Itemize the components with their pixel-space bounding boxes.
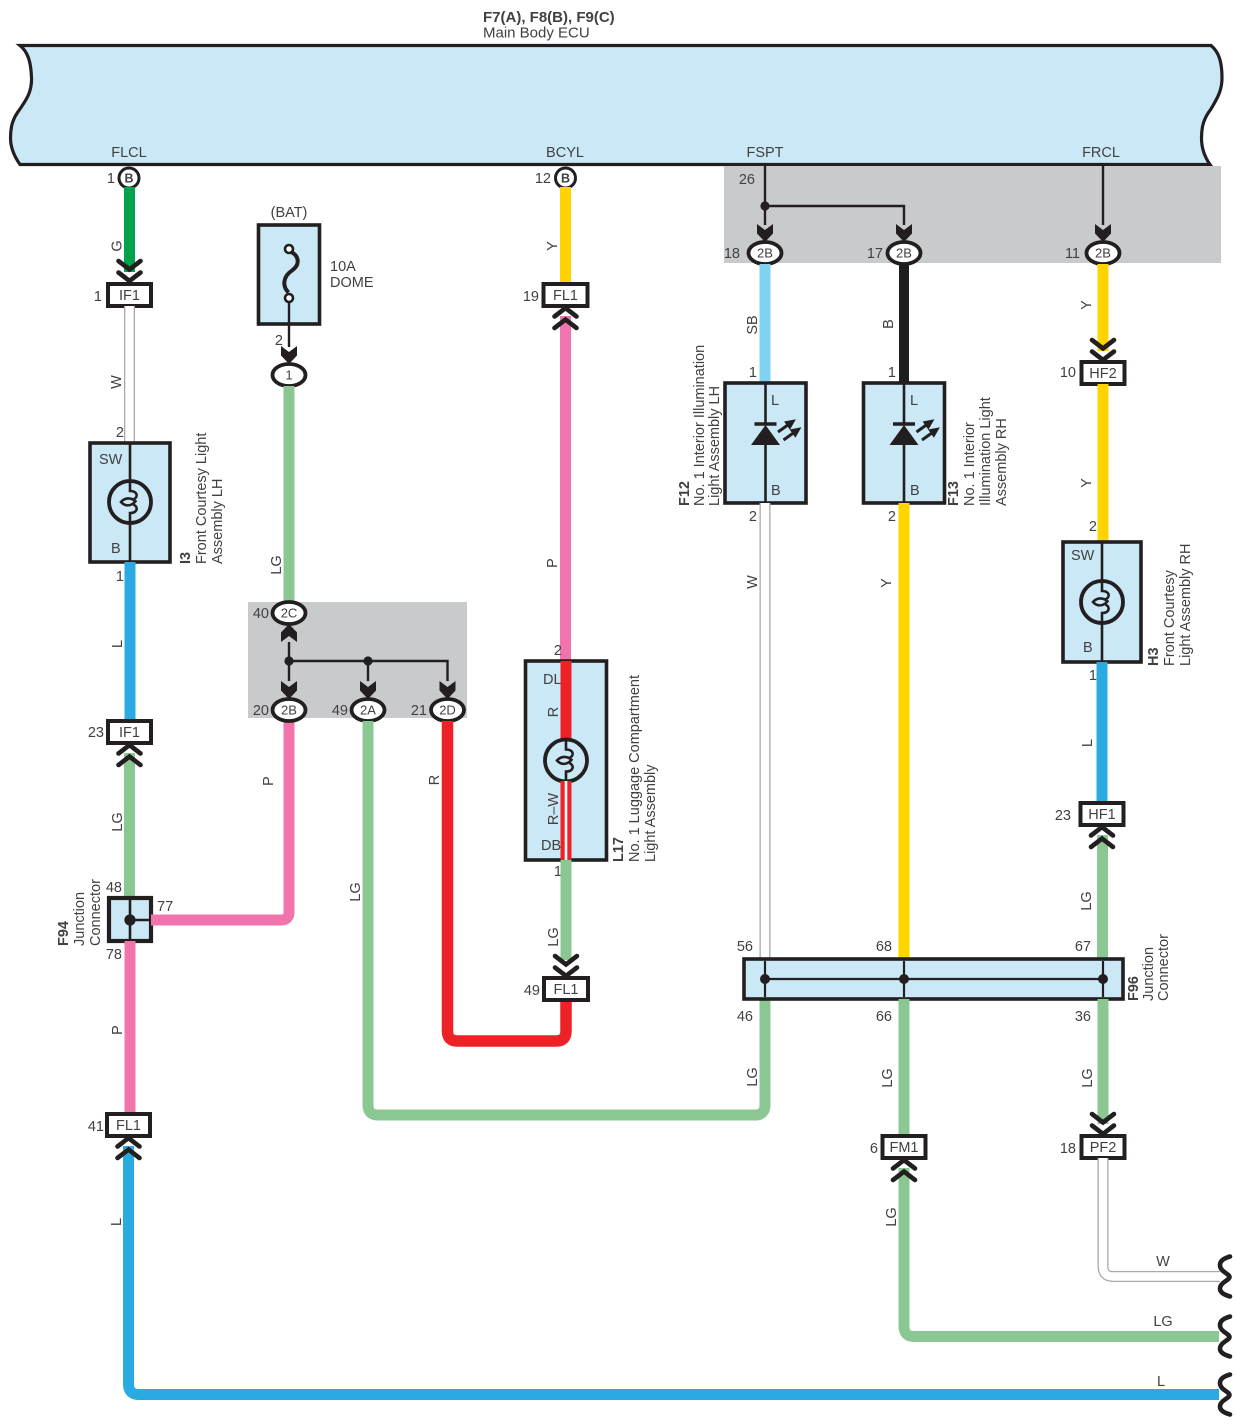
chevrons out of HF1 <box>1091 827 1113 847</box>
svg-text:LG: LG <box>1153 1314 1172 1330</box>
pin labels F96 top <box>737 939 1091 955</box>
junction dot 2A branch <box>363 656 372 665</box>
svg-text:1: 1 <box>1089 668 1097 684</box>
svg-text:W: W <box>745 575 761 589</box>
svg-text:40: 40 <box>253 606 269 622</box>
svg-text:FM1: FM1 <box>890 1140 919 1156</box>
svg-text:IF1: IF1 <box>119 725 140 741</box>
chevrons out of FL1 pin 41 <box>118 1138 140 1158</box>
svg-text:B: B <box>111 541 121 557</box>
svg-text:DOME: DOME <box>330 275 374 291</box>
wire LG (fuse to 2C) <box>284 386 295 603</box>
svg-text:Assembly RH: Assembly RH <box>994 418 1010 506</box>
svg-text:SW: SW <box>1071 548 1095 564</box>
svg-text:No. 1 Luggage Compartment: No. 1 Luggage Compartment <box>627 675 643 862</box>
connector oval 1 <box>273 364 306 386</box>
svg-text:49: 49 <box>332 703 348 719</box>
arrow out of 2C <box>281 624 297 642</box>
wire R-W inside L17 <box>561 781 572 860</box>
svg-text:Assembly LH: Assembly LH <box>210 479 226 564</box>
svg-text:L: L <box>110 640 126 648</box>
svg-text:B: B <box>910 483 920 499</box>
connector HF1 pin 23 <box>1055 803 1124 825</box>
chevrons out of FM1 <box>893 1160 915 1180</box>
svg-text:B: B <box>881 319 897 329</box>
connector oval 2C pin 40 <box>253 602 306 624</box>
svg-text:46: 46 <box>737 1009 753 1025</box>
svg-text:78: 78 <box>106 947 122 963</box>
svg-text:36: 36 <box>1075 1009 1091 1025</box>
wire SB (2B 18 to F12) <box>760 264 771 383</box>
svg-text:(BAT): (BAT) <box>271 205 308 221</box>
svg-text:Light Assembly: Light Assembly <box>643 764 659 862</box>
bulb I3 <box>109 481 151 523</box>
arrow into 2D <box>440 681 456 699</box>
svg-text:IF1: IF1 <box>119 288 140 304</box>
svg-text:F96: F96 <box>1126 976 1142 1001</box>
connector PF2 pin 18 <box>1060 1136 1125 1158</box>
connector oval 2B pin 11 <box>1065 242 1120 264</box>
chevrons out of IF1 pin 23 <box>119 745 141 765</box>
squiggle L <box>1220 1375 1230 1415</box>
svg-text:R: R <box>427 775 443 785</box>
pin 1 B (FLCL) <box>107 168 139 188</box>
svg-text:L: L <box>1157 1374 1165 1390</box>
svg-text:F13: F13 <box>946 481 962 506</box>
svg-text:2: 2 <box>1089 519 1097 535</box>
LED F12 <box>751 419 801 445</box>
svg-text:LG: LG <box>348 882 364 901</box>
chevrons into HF2 pin 10 <box>1092 340 1114 360</box>
junction dot FSPT branch <box>760 201 769 210</box>
svg-text:LG: LG <box>269 555 285 574</box>
svg-text:Y: Y <box>545 241 561 251</box>
svg-text:23: 23 <box>1055 808 1071 824</box>
Main Body ECU band <box>11 46 1223 165</box>
svg-text:68: 68 <box>876 939 892 955</box>
svg-text:Connector: Connector <box>88 879 104 946</box>
wire G (FLCL to IF1) <box>124 187 135 272</box>
interior illumination light F12 <box>725 383 806 503</box>
svg-text:2A: 2A <box>360 703 376 718</box>
svg-text:SB: SB <box>745 315 761 334</box>
luggage light L17 <box>526 661 607 860</box>
svg-text:26: 26 <box>739 172 755 188</box>
connector HF2 pin 10 <box>1060 362 1125 384</box>
svg-text:LG: LG <box>1080 1068 1096 1087</box>
svg-text:Connector: Connector <box>1156 934 1172 1001</box>
wire LG (L17 to FL1 49) <box>561 860 572 960</box>
connector FM1 pin 6 <box>870 1136 926 1158</box>
connector oval 2B pin 20 <box>253 699 306 721</box>
wire R inside L17 <box>561 661 572 740</box>
wire P (F94 pin 78 to FL1 41) <box>125 941 136 1114</box>
bulb H3 <box>1081 581 1123 623</box>
svg-text:21: 21 <box>411 703 427 719</box>
svg-text:B: B <box>124 172 133 186</box>
wire L (FL1 41 to right edge) <box>129 1146 1220 1395</box>
chevrons into IF1 pin 1 <box>119 261 141 281</box>
svg-text:Front Courtesy: Front Courtesy <box>1162 569 1178 666</box>
wire 2C branch <box>289 642 448 681</box>
svg-text:P: P <box>545 558 561 568</box>
svg-text:Front Courtesy Light: Front Courtesy Light <box>194 433 210 564</box>
svg-text:L: L <box>910 393 918 409</box>
svg-text:FL1: FL1 <box>116 1118 141 1134</box>
svg-text:B: B <box>1083 640 1093 656</box>
label L17 No. 1 Luggage Compartment Light Assembly <box>611 675 659 862</box>
svg-text:2B: 2B <box>896 246 912 261</box>
svg-text:77: 77 <box>157 899 173 915</box>
svg-text:L: L <box>109 1218 125 1226</box>
chevrons into PF2 <box>1092 1114 1114 1134</box>
svg-text:1: 1 <box>749 365 757 381</box>
svg-text:49: 49 <box>524 983 540 999</box>
chevrons out of FL1 pin 19 <box>555 308 577 328</box>
svg-text:DL: DL <box>543 672 562 688</box>
wire W (PF2 to right edge) <box>1103 1158 1220 1277</box>
svg-text:17: 17 <box>867 246 883 262</box>
svg-text:H3: H3 <box>1146 647 1162 666</box>
connector IF1 pin 1 <box>94 284 151 306</box>
svg-text:FL1: FL1 <box>553 288 578 304</box>
wire LG (F96 pin 36 to PF2) <box>1098 999 1109 1124</box>
wire R (2D to FL1 49) <box>448 721 567 1041</box>
wire W (IF1 to I3) <box>124 306 135 443</box>
wire LG (IF1 to F94) <box>124 753 135 898</box>
svg-text:W: W <box>109 375 125 389</box>
svg-text:F7(A), F8(B), F9(C): F7(A), F8(B), F9(C) <box>483 9 615 26</box>
arrow into 2B pin 11 <box>1095 224 1111 242</box>
svg-text:Main Body ECU: Main Body ECU <box>483 25 590 42</box>
svg-text:HF1: HF1 <box>1088 807 1115 823</box>
junction connector F96 <box>744 959 1123 999</box>
chevrons into FL1 pin 49 <box>555 956 577 976</box>
svg-text:B: B <box>561 172 570 186</box>
arrow into 2B pin 17 <box>896 224 912 242</box>
svg-text:2C: 2C <box>281 606 298 621</box>
courtesy light switch I3 <box>90 443 170 562</box>
svg-text:18: 18 <box>1060 1141 1076 1157</box>
squiggle LG <box>1220 1317 1230 1357</box>
svg-text:L17: L17 <box>611 837 627 862</box>
svg-text:2D: 2D <box>439 703 456 718</box>
svg-text:I3: I3 <box>178 552 194 564</box>
connector FL1 pin 19 <box>523 284 588 306</box>
svg-text:B: B <box>771 483 781 499</box>
wire LG (HF1 to F96 pin 67) <box>1097 835 1108 959</box>
svg-text:66: 66 <box>876 1009 892 1025</box>
svg-text:23: 23 <box>88 725 104 741</box>
svg-text:R–W: R–W <box>546 793 562 826</box>
svg-text:Junction: Junction <box>1141 947 1157 1001</box>
connector IF1 pin 23 <box>88 721 151 743</box>
svg-text:2B: 2B <box>281 703 297 718</box>
label F12 No. 1 Interior Illumination Light Assembly LH <box>677 345 723 506</box>
FSPT/FRCL gray connector zone <box>724 166 1221 263</box>
wire W (F12 to F96 pin 56) <box>760 503 771 959</box>
connector FL1 pin 49 <box>524 978 588 1000</box>
svg-text:2: 2 <box>116 425 124 441</box>
svg-text:FSPT: FSPT <box>746 145 783 161</box>
LED F13 <box>890 419 940 445</box>
svg-text:HF2: HF2 <box>1089 366 1116 382</box>
svg-text:Y: Y <box>1079 478 1095 488</box>
junction connector F94 <box>106 880 173 963</box>
svg-text:F94: F94 <box>56 921 72 946</box>
connector FL1 pin 41 <box>88 1114 150 1136</box>
pin labels F96 bottom <box>737 1009 1091 1025</box>
svg-text:SW: SW <box>99 452 123 468</box>
svg-text:2: 2 <box>554 643 562 659</box>
svg-text:Illumination Light: Illumination Light <box>978 397 994 506</box>
svg-text:10A: 10A <box>330 259 356 275</box>
svg-text:Junction: Junction <box>72 892 88 946</box>
svg-text:FLCL: FLCL <box>111 145 146 161</box>
svg-text:19: 19 <box>523 289 539 305</box>
svg-text:FL1: FL1 <box>554 982 579 998</box>
wire Y (BCYL to FL1 19) <box>560 187 571 284</box>
label F94 Junction Connector <box>56 879 104 946</box>
label H3 Front Courtesy Light Assembly RH <box>1146 544 1194 667</box>
svg-text:LG: LG <box>745 1067 761 1086</box>
svg-text:Y: Y <box>1079 300 1095 310</box>
svg-text:LG: LG <box>880 1068 896 1087</box>
svg-text:LG: LG <box>1079 891 1095 910</box>
svg-text:LG: LG <box>546 927 562 946</box>
svg-text:1: 1 <box>116 569 124 585</box>
svg-text:W: W <box>1156 1254 1170 1270</box>
svg-text:No. 1 Interior Illumination: No. 1 Interior Illumination <box>692 345 708 506</box>
pin 12 B (BCYL) <box>535 168 576 188</box>
svg-text:2B: 2B <box>1095 246 1111 261</box>
svg-text:41: 41 <box>88 1119 104 1135</box>
connector oval 2D pin 21 <box>411 699 464 721</box>
svg-text:P: P <box>261 776 277 786</box>
arrow into 2B <box>281 681 297 699</box>
wire LG (F96 pin 66 to FM1) <box>899 999 910 1136</box>
svg-text:BCYL: BCYL <box>546 145 584 161</box>
wire B (2B 17 to F13) <box>899 264 909 383</box>
svg-text:LG: LG <box>884 1207 900 1226</box>
svg-text:2: 2 <box>888 509 896 525</box>
svg-text:Light Assembly LH: Light Assembly LH <box>707 386 723 506</box>
svg-text:10: 10 <box>1060 365 1076 381</box>
svg-text:20: 20 <box>253 703 269 719</box>
wire FSPT branch <box>765 166 1103 225</box>
squiggle W <box>1220 1257 1230 1297</box>
svg-text:No. 1 Interior: No. 1 Interior <box>962 422 978 506</box>
wire L (I3 to IF1 23) <box>125 562 136 721</box>
arrow into 2B pin 18 <box>757 224 773 242</box>
wire Y (2B 11 to HF2) <box>1098 264 1109 351</box>
svg-text:L: L <box>1080 739 1096 747</box>
connector oval 2B pin 18 <box>724 242 782 264</box>
wire P (FL1 19 to L17) <box>560 316 571 661</box>
fuse 10A DOME (BAT) <box>259 205 374 324</box>
wire LG (FM1 to right edge) <box>904 1168 1219 1337</box>
svg-text:Y: Y <box>879 578 895 588</box>
connector oval 2B pin 17 <box>867 242 921 264</box>
svg-text:11: 11 <box>1065 246 1080 262</box>
gray connector zone 2C/2B/2A/2D <box>248 602 467 718</box>
junction dot 2C-2B <box>284 656 293 665</box>
svg-text:F12: F12 <box>677 481 693 506</box>
svg-text:LG: LG <box>110 812 126 831</box>
wire P (F94 pin 77 to 2B) <box>151 722 289 920</box>
label F96 Junction Connector <box>1126 934 1172 1001</box>
bulb L17 <box>545 740 587 782</box>
svg-text:P: P <box>110 1025 126 1035</box>
arrow into oval 1 <box>281 346 297 364</box>
label F13 No. 1 Interior Illumination Light Assembly RH <box>946 397 1010 506</box>
svg-text:12: 12 <box>535 171 551 187</box>
svg-text:6: 6 <box>870 1141 878 1157</box>
svg-text:2B: 2B <box>757 246 773 261</box>
svg-text:1: 1 <box>888 365 896 381</box>
svg-text:2: 2 <box>749 509 757 525</box>
svg-text:L: L <box>771 393 779 409</box>
svg-text:R: R <box>546 707 562 717</box>
svg-text:FRCL: FRCL <box>1082 145 1120 161</box>
svg-text:PF2: PF2 <box>1090 1140 1117 1156</box>
label I3 Front Courtesy Light Assembly LH <box>178 433 226 564</box>
svg-text:67: 67 <box>1075 939 1091 955</box>
svg-text:G: G <box>110 240 126 251</box>
courtesy light switch H3 <box>1063 542 1141 662</box>
interior illumination light F13 <box>864 383 945 503</box>
svg-text:Light Assembly RH: Light Assembly RH <box>1178 544 1194 667</box>
svg-text:1: 1 <box>94 289 102 305</box>
svg-text:18: 18 <box>724 246 740 262</box>
svg-text:1: 1 <box>107 171 115 187</box>
connector oval 2A pin 49 <box>332 699 385 721</box>
svg-text:DB: DB <box>541 838 561 854</box>
wire fuse pin 2 <box>288 302 290 347</box>
svg-text:48: 48 <box>106 880 122 896</box>
wire L (H3 to HF1) <box>1097 662 1108 803</box>
wire Y (HF2 to H3) <box>1098 384 1109 542</box>
wire Y (F13 to F96 pin 68) <box>899 503 910 959</box>
wire LG (2A to F96 pin 46) <box>368 721 765 1115</box>
svg-text:1: 1 <box>285 368 292 383</box>
arrow into 2A <box>360 681 376 699</box>
title F7(A), F8(B), F9(C) Main Body ECU <box>483 9 615 42</box>
svg-text:56: 56 <box>737 939 753 955</box>
